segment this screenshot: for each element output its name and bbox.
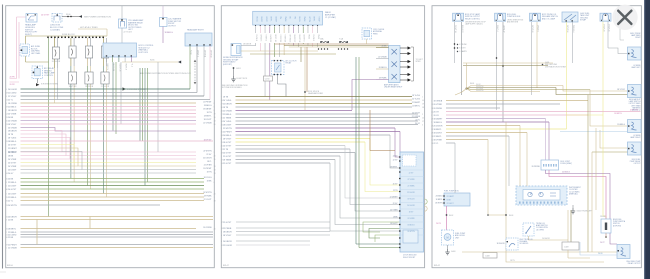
bus pin squares: [47, 37, 104, 39]
P2 wire row y107: [221, 107, 412, 109]
svg-text:18 BK/LG: 18 BK/LG: [8, 141, 17, 143]
svg-text:1: 1: [221, 156, 222, 158]
svg-text:18 GY/VT: 18 GY/VT: [204, 119, 213, 121]
P2 splice dot: [304, 91, 323, 95]
svg-text:20 WT/TN: 20 WT/TN: [476, 90, 484, 92]
svg-text:RIGHT: RIGHT: [635, 37, 640, 39]
P3 bottom center vertical: [487, 122, 604, 262]
svg-text:BK/LG: BK/LG: [255, 17, 257, 23]
svg-text:20 GY/VT: 20 GY/VT: [8, 162, 17, 164]
svg-text:20 GY/VT: 20 GY/VT: [8, 189, 17, 191]
svg-text:20 WT/TN: 20 WT/TN: [476, 86, 484, 88]
svg-text:18 BR/YL: 18 BR/YL: [436, 199, 443, 201]
right connector R3: [628, 120, 642, 133]
outer dialog left border line: [2, 5, 4, 269]
C302 sublabel: [507, 20, 524, 24]
svg-text:SEE POWER DISTRIBUTION: SEE POWER DISTRIBUTION: [84, 16, 111, 18]
svg-text:22 LG/RD: 22 LG/RD: [8, 92, 17, 94]
instrument cluster label: [569, 187, 582, 196]
P1 lower stub y166: [8, 166, 78, 168]
P2 speaker amp box: [389, 45, 400, 82]
svg-text:18 TN: 18 TN: [207, 171, 213, 173]
panel 1 frame: [6, 6, 215, 268]
P3 wire row y136: [431, 136, 509, 138]
svg-text:LEFT RAIL: LEFT RAIL: [31, 52, 40, 55]
svg-text:18 DG/VT: 18 DG/VT: [223, 124, 232, 126]
module M2 drops: [189, 46, 211, 100]
svg-text:20 VT/BR: 20 VT/BR: [8, 113, 17, 115]
svg-text:10: 10: [6, 120, 8, 122]
svg-text:S BODY: S BODY: [459, 48, 466, 50]
right text column E: [630, 159, 642, 165]
P3 wire row y125.5: [431, 125, 520, 127]
P3 wire row y115: [431, 115, 588, 117]
svg-text:25: 25: [431, 129, 433, 131]
cluster pin row label: [560, 161, 572, 165]
svg-text:RIGHT FRONT: RIGHT FRONT: [403, 257, 416, 259]
svg-text:20 PK/WT: 20 PK/WT: [203, 168, 212, 170]
P1 wire row y234.5: [6, 234, 213, 236]
svg-text:RELAY: RELAY: [286, 62, 293, 65]
P2 wire row y145.5: [221, 145, 345, 147]
C304 label: [580, 13, 590, 22]
svg-text:22 YL: 22 YL: [8, 99, 13, 101]
svg-text:20 DG/OR: 20 DG/OR: [407, 205, 415, 207]
P2 wire row y114: [221, 114, 418, 116]
C305 drop wires yellow: [602, 22, 609, 116]
svg-text:TN/BK 14: TN/BK 14: [572, 25, 574, 32]
svg-text:18 OR/DB: 18 OR/DB: [85, 86, 94, 88]
svg-text:18 OR/DB: 18 OR/DB: [434, 100, 443, 102]
svg-text:S100: S100: [66, 14, 70, 16]
svg-text:16: 16: [6, 228, 8, 230]
svg-text:18 BK/LG: 18 BK/LG: [434, 122, 443, 124]
svg-text:GY/VT 19: GY/VT 19: [209, 50, 211, 57]
svg-text:20 GY/VT: 20 GY/VT: [412, 112, 421, 114]
P2 fuse pins: [318, 48, 348, 49]
svg-text:NEAR AMPLIFIER: NEAR AMPLIFIER: [308, 92, 324, 95]
svg-text:20 BK/LG: 20 BK/LG: [617, 124, 625, 126]
svg-text:20 VT/BR: 20 VT/BR: [390, 209, 398, 211]
P1 wire row y205: [6, 205, 160, 207]
P2 wire row y135: [221, 135, 390, 137]
P2 right bundle staircase top: [301, 25, 335, 110]
svg-text:22 VT/BR: 22 VT/BR: [408, 179, 416, 181]
svg-text:20 DG/VT: 20 DG/VT: [8, 169, 17, 171]
P1 gray drop to connector C5: [119, 6, 133, 43]
P1 wire row y216.5: [6, 216, 213, 218]
connector C305: [600, 13, 611, 21]
P1 wire row y232: [6, 232, 213, 234]
R5 label: [626, 261, 641, 265]
P3 annotation mid: [542, 62, 566, 68]
svg-text:20 DB/OR: 20 DB/OR: [223, 241, 232, 243]
P1 wire row y106.5: [6, 106, 196, 108]
svg-text:22 BK/LG: 22 BK/LG: [8, 182, 17, 184]
svg-text:20 YL/DG: 20 YL/DG: [223, 121, 232, 123]
P2 wire row y96.5: [221, 96, 412, 98]
svg-text:1: 1: [214, 197, 215, 199]
svg-text:15: 15: [431, 104, 433, 106]
P2 wire row y149: [221, 149, 350, 151]
svg-text:18 BK/LG: 18 BK/LG: [165, 32, 174, 34]
svg-text:20 BK/LG: 20 BK/LG: [8, 152, 17, 154]
relay K201 label: [286, 60, 297, 65]
svg-text:M: M: [446, 237, 448, 240]
svg-text:DB/WT 28: DB/WT 28: [298, 35, 300, 43]
svg-text:YL 3: YL 3: [131, 64, 133, 67]
svg-text:6: 6: [214, 182, 215, 184]
svg-text:4: 4: [6, 89, 7, 91]
svg-text:22 DG/VT: 22 DG/VT: [8, 185, 17, 187]
svg-text:LAMP RIGHT: LAMP RIGHT: [630, 136, 640, 139]
P2 fuse symbol F201: [320, 38, 329, 43]
svg-text:16: 16: [6, 216, 8, 218]
svg-text:20 GY: 20 GY: [8, 173, 14, 175]
svg-text:OR/DB 6: OR/DB 6: [260, 35, 262, 42]
svg-text:C409: C409: [564, 246, 569, 248]
P1 lower stub y152: [8, 152, 62, 154]
speaker box input wires: [376, 46, 389, 80]
svg-text:LID OPEN: LID OPEN: [536, 229, 545, 231]
svg-text:20 GY/VT: 20 GY/VT: [41, 14, 50, 16]
svg-text:19: 19: [6, 141, 8, 143]
svg-text:22 OR/DB: 22 OR/DB: [203, 122, 212, 124]
cluster top feeds: [509, 126, 527, 187]
svg-text:14: 14: [214, 120, 216, 122]
svg-text:(EXPORT): (EXPORT): [223, 64, 232, 66]
P1 wire row y141: [6, 141, 213, 143]
svg-text:22 DG/VT: 22 DG/VT: [447, 203, 454, 205]
svg-text:1: 1: [6, 247, 7, 249]
close button circle: [612, 5, 637, 30]
svg-text:22 YL: 22 YL: [415, 119, 420, 121]
P2 brown feed top right module: [370, 110, 395, 151]
relay K1 label: [25, 24, 38, 37]
svg-text:18: 18: [214, 200, 216, 202]
svg-text:18 BR/YL: 18 BR/YL: [434, 129, 442, 131]
bottom mid vertical pair with inline connector: [562, 210, 590, 258]
svg-text:20 VT/BR: 20 VT/BR: [408, 218, 416, 220]
P2 right staircase into module: [330, 128, 400, 231]
svg-text:15: 15: [221, 131, 223, 133]
P2 top-right dashed component: [362, 28, 372, 39]
svg-text:20: 20: [214, 228, 216, 230]
svg-text:GY/VT 16: GY/VT 16: [566, 25, 568, 32]
svg-text:18 YL/DG: 18 YL/DG: [8, 137, 17, 139]
svg-text:18 VT/GY: 18 VT/GY: [204, 139, 213, 141]
svg-text:22 DB/WT: 22 DB/WT: [8, 148, 18, 150]
svg-text:6: 6: [214, 106, 215, 108]
svg-text:14: 14: [221, 163, 223, 165]
svg-text:20 OR/DB: 20 OR/DB: [8, 127, 17, 129]
svg-text:VT/BR 19: VT/BR 19: [284, 35, 286, 42]
svg-text:6: 6: [6, 185, 7, 187]
svg-text:18 DB/OR: 18 DB/OR: [8, 110, 17, 112]
tall module left wire labels: [390, 155, 399, 225]
svg-text:S HORNS SYSTEM: S HORNS SYSTEM: [41, 84, 58, 86]
svg-text:SOLENOID: SOLENOID: [520, 243, 530, 245]
svg-text:30: 30: [431, 139, 433, 141]
svg-text:VT/GY 24: VT/GY 24: [607, 24, 609, 31]
washer motor M301: [442, 230, 454, 245]
P2 hop crossings near right border: [425, 199, 428, 211]
cluster pin row box: [541, 160, 559, 170]
svg-text:8W-47: 8W-47: [223, 265, 230, 267]
C302 drop wires: [496, 22, 505, 122]
wire link to splice marker: [62, 14, 82, 18]
P2 fuse symbol F202: [339, 38, 348, 43]
svg-text:11: 11: [221, 245, 223, 247]
svg-text:C4 (GRAY): C4 (GRAY): [50, 28, 60, 31]
svg-text:LAMP LEFT: LAMP LEFT: [631, 66, 640, 69]
svg-text:19: 19: [6, 106, 8, 108]
svg-text:22 DB/OR: 22 DB/OR: [223, 103, 232, 105]
svg-text:22 PK/WT: 22 PK/WT: [223, 131, 232, 133]
svg-text:TN/BK: TN/BK: [284, 17, 286, 23]
P1 wire row y117: [6, 117, 196, 119]
fuse F301 label: [613, 219, 626, 227]
C303 drop wires: [531, 22, 539, 95]
svg-text:22 GY/VT: 22 GY/VT: [223, 222, 232, 224]
svg-text:22 TN: 22 TN: [393, 190, 398, 192]
P1 step wire y137.5: [8, 137, 196, 159]
svg-text:18 BK/LG: 18 BK/LG: [204, 105, 212, 107]
svg-text:18 VT/BR: 18 VT/BR: [434, 139, 443, 141]
svg-text:22 WT/TN: 22 WT/TN: [203, 150, 212, 152]
svg-text:18 DB/OR: 18 DB/OR: [243, 43, 252, 45]
svg-text:20 PK: 20 PK: [10, 84, 16, 86]
svg-text:GY/VT: GY/VT: [265, 17, 267, 22]
svg-text:22 GY/VT: 22 GY/VT: [204, 199, 213, 201]
instrument cluster dashed box: [516, 186, 567, 205]
P3 wire row y122: [431, 122, 549, 124]
svg-text:BR/YL: BR/YL: [270, 17, 272, 22]
svg-text:22 GY/VT: 22 GY/VT: [223, 156, 232, 158]
bottom right connector R5: [617, 245, 630, 259]
C305 to right connector R0: [608, 22, 628, 54]
fuse F6 row2: [85, 72, 94, 88]
svg-text:20 VT/BR: 20 VT/BR: [8, 166, 17, 168]
P3 right wire labels: [617, 89, 626, 126]
P1 step wire y130.5: [8, 130, 196, 152]
P1 lower stub y162.5: [8, 162, 74, 164]
svg-text:20: 20: [431, 111, 433, 113]
svg-text:19: 19: [214, 113, 216, 115]
svg-text:RELAY CONTROL: RELAY CONTROL: [465, 17, 480, 20]
R4 feed wires: [592, 130, 628, 152]
svg-text:RELAY OUTPUT: RELAY OUTPUT: [628, 262, 641, 265]
svg-text:18 YL: 18 YL: [207, 161, 212, 163]
fuse F5 column wires: [71, 66, 74, 182]
svg-text:3: 3: [6, 219, 7, 221]
P3 wire row y143: [431, 143, 455, 145]
svg-text:16: 16: [6, 173, 8, 175]
svg-text:DB/OR 27: DB/OR 27: [293, 35, 295, 43]
svg-text:G403: G403: [451, 251, 455, 253]
module M1 light blue: [103, 43, 137, 57]
top-right component label: [373, 29, 385, 35]
svg-text:18 BR/YL: 18 BR/YL: [204, 115, 212, 117]
svg-text:20 BK: 20 BK: [382, 46, 388, 48]
panel 3 frame: [432, 6, 641, 268]
svg-text:20 TN/BK: 20 TN/BK: [408, 186, 416, 188]
svg-text:30: 30: [221, 117, 223, 119]
P3 pink long wire right labels: [614, 110, 638, 116]
svg-text:G201: G201: [236, 68, 241, 70]
purple route from joint conn: [546, 170, 618, 244]
svg-text:3: 3: [431, 115, 432, 117]
svg-text:DG/VT 4: DG/VT 4: [106, 64, 108, 71]
P2 wire row y131.5: [221, 131, 400, 133]
bottom small module: [506, 238, 518, 250]
svg-text:BR/YL 18: BR/YL 18: [274, 35, 276, 42]
svg-text:FUEL PUMP MOD: FUEL PUMP MOD: [444, 190, 460, 192]
right connector R1: [628, 47, 642, 60]
washer motor label: [455, 233, 466, 239]
bottom right fuse F301: [601, 219, 611, 233]
svg-text:DB/OR: DB/OR: [260, 17, 262, 23]
svg-text:PUMP MODULE: PUMP MODULE: [507, 16, 521, 18]
P1 wire row y92.5: [6, 92, 197, 94]
svg-text:26: 26: [6, 200, 8, 202]
svg-text:20 BK/LG: 20 BK/LG: [379, 67, 387, 69]
P2 ground stub G1: [231, 67, 248, 82]
P2 wire row y121: [221, 121, 418, 123]
svg-text:22 GY/VT: 22 GY/VT: [223, 163, 232, 165]
P3 tan trunk lines top: [455, 63, 561, 95]
svg-text:20 GY/VT: 20 GY/VT: [8, 144, 17, 146]
svg-text:22 PK/DB: 22 PK/DB: [223, 228, 232, 230]
svg-text:27: 27: [221, 114, 223, 116]
svg-text:20 VT/BR: 20 VT/BR: [8, 159, 17, 161]
P3 wire row y132.5: [431, 132, 527, 134]
cluster ground: [571, 205, 594, 214]
fuse F5 row2: [68, 72, 77, 88]
svg-text:4: 4: [221, 241, 222, 243]
svg-text:26: 26: [221, 110, 223, 112]
P3 wire row y111.5: [431, 111, 640, 113]
bottom-left inline label box: [483, 253, 497, 259]
svg-text:20 GY: 20 GY: [434, 111, 440, 113]
P2 right end labels upper: [412, 95, 424, 126]
svg-text:BK/LG 23: BK/LG 23: [461, 25, 463, 32]
svg-text:3: 3: [214, 178, 215, 180]
svg-text:18 TN: 18 TN: [207, 112, 213, 114]
svg-text:22 DG/OR: 22 DG/OR: [203, 157, 212, 159]
svg-text:22 YL: 22 YL: [8, 200, 13, 202]
svg-text:DG/OR 28: DG/OR 28: [118, 64, 120, 72]
P1 wire row y200.5: [6, 200, 204, 202]
speaker box output arrows: [400, 46, 411, 81]
P1 wire row y120.5: [6, 120, 196, 122]
svg-text:20 DB/OR: 20 DB/OR: [542, 238, 550, 240]
svg-text:(BUILT) C2: (BUILT) C2: [632, 110, 640, 112]
svg-text:22 WT/TN: 22 WT/TN: [223, 128, 232, 130]
P2 wire row y103.5: [221, 103, 412, 105]
svg-text:S TRUNK: S TRUNK: [459, 44, 467, 46]
svg-text:10: 10: [6, 237, 8, 239]
svg-text:22 DG/OR: 22 DG/OR: [101, 86, 110, 88]
switch SW301 label: [536, 223, 549, 231]
P2 green staircase bottom: [363, 220, 400, 242]
svg-text:22 BK/LG: 22 BK/LG: [562, 172, 570, 174]
P2 wire row y117.5: [221, 117, 418, 119]
P1 wire row y113.5: [6, 113, 196, 115]
C201 label: [223, 57, 243, 66]
P1 wire row y124: [6, 124, 196, 126]
svg-text:TN 10: TN 10: [317, 35, 319, 40]
svg-text:1: 1: [431, 100, 432, 102]
svg-text:8: 8: [214, 110, 215, 112]
P1 wire row y110: [6, 110, 196, 112]
svg-text:20 PK: 20 PK: [10, 77, 16, 79]
component C2 left dashed: [20, 44, 30, 56]
P1 pink wire labels: [10, 14, 51, 86]
svg-text:16: 16: [221, 100, 223, 102]
C301 sublabel: [465, 22, 487, 26]
speaker bracket: [411, 47, 424, 81]
svg-text:18 TN: 18 TN: [510, 260, 515, 262]
P1 pink feed wires from left relay: [17, 17, 27, 79]
connector C304 sensor: [562, 12, 578, 22]
fuse F6 column wires: [87, 66, 90, 189]
svg-text:22 DB/WT: 22 DB/WT: [390, 196, 398, 198]
svg-text:15: 15: [214, 159, 216, 161]
right text column A: [630, 33, 641, 39]
right text column C: [629, 98, 642, 112]
svg-text:STRAP: STRAP: [580, 19, 587, 22]
svg-text:VT/GY 23: VT/GY 23: [602, 24, 604, 31]
svg-text:18 BK: 18 BK: [207, 180, 213, 182]
P2 wire row y100: [221, 100, 412, 102]
svg-text:20 PK/DB: 20 PK/DB: [532, 166, 541, 168]
P1 gray step row: [8, 127, 196, 131]
svg-text:22 DG/OR: 22 DG/OR: [223, 245, 232, 247]
svg-text:19: 19: [6, 117, 8, 119]
svg-text:13: 13: [214, 166, 216, 168]
right text column B: [631, 65, 641, 69]
P1 wire row y99.5: [6, 99, 210, 101]
svg-text:15: 15: [221, 228, 223, 230]
svg-text:18 TN: 18 TN: [8, 134, 14, 136]
svg-text:17: 17: [422, 121, 424, 123]
svg-text:AND CYL LAMP: AND CYL LAMP: [542, 17, 556, 20]
P1 wire row y173: [6, 173, 196, 175]
svg-text:(PARTIAL): (PARTIAL): [569, 193, 578, 196]
washer motor ground: [445, 245, 455, 255]
P2 wire row y142: [221, 142, 365, 144]
svg-text:18 DB/OR: 18 DB/OR: [8, 130, 17, 132]
fuse F2 row1: [69, 38, 76, 66]
svg-text:18 DG/VT: 18 DG/VT: [390, 223, 398, 225]
svg-text:18 VT/GY: 18 VT/GY: [223, 138, 232, 140]
svg-text:20: 20: [221, 145, 223, 147]
P1 purple drop connector C6: [160, 6, 174, 43]
svg-text:VT/GY: VT/GY: [317, 17, 319, 23]
svg-text:22 PK/WT: 22 PK/WT: [8, 244, 17, 246]
P2 annotation lower-left: [222, 85, 248, 89]
svg-text:22 OR/DB: 22 OR/DB: [378, 57, 387, 59]
svg-text:B LEFT KICK: B LEFT KICK: [237, 78, 249, 80]
svg-text:7: 7: [6, 110, 7, 112]
svg-text:20: 20: [214, 155, 216, 157]
P2 wire row y163: [221, 163, 330, 165]
svg-text:22 DB/WT: 22 DB/WT: [447, 196, 454, 198]
svg-text:DISTRIBUTION SYSTEM: DISTRIBUTION SYSTEM: [545, 66, 566, 68]
svg-text:22 GY: 22 GY: [206, 154, 212, 156]
svg-text:(EXPORT): (EXPORT): [613, 225, 621, 227]
